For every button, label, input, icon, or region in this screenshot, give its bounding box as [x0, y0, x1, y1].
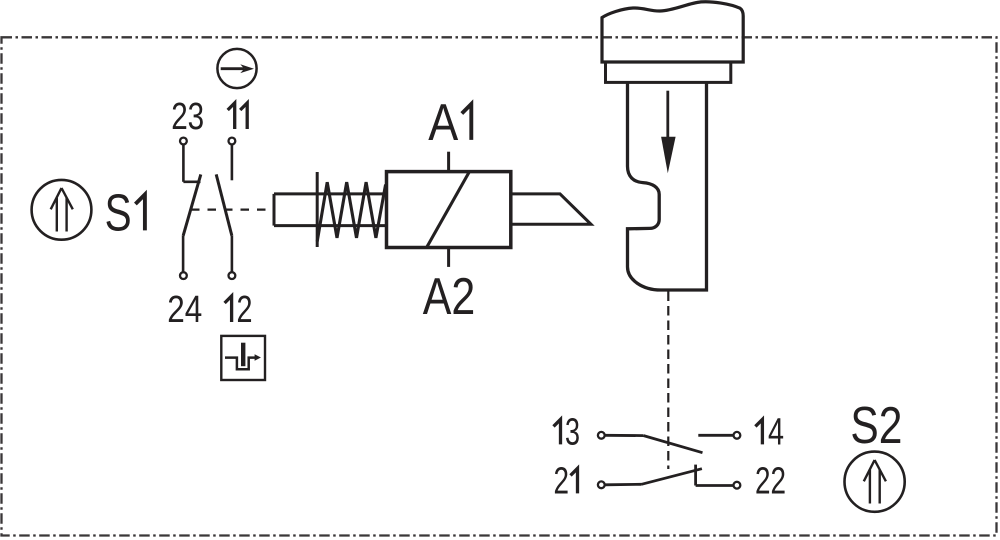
- actuator head block (wavy top): [602, 2, 743, 62]
- solenoid-monitoring icon (square with pulse): [221, 336, 265, 380]
- insertion arrow in shaft: [666, 91, 669, 138]
- spring abutment bar: [316, 172, 319, 247]
- solenoid coil U1 (box with diagonal): [387, 172, 511, 248]
- solenoid diagonal: [427, 172, 470, 248]
- svg-text:S: S: [105, 184, 132, 242]
- svg-text:3: 3: [565, 411, 580, 453]
- svg-text:22: 22: [755, 460, 786, 502]
- terminal lead A2: [447, 248, 450, 267]
- actuation-direction icon (circle with right arrow): [217, 49, 256, 88]
- svg-text:S2: S2: [850, 397, 902, 455]
- svg-text:23: 23: [171, 96, 204, 138]
- plunger rod: [274, 194, 387, 226]
- contact 11-12 (NC contact of S1): [216, 138, 235, 279]
- contact 13-14 (NO contact of S2): [598, 432, 740, 453]
- svg-text:2: 2: [237, 289, 253, 331]
- label 13: [554, 419, 561, 444]
- svg-text:2: 2: [553, 460, 569, 502]
- label 11: [228, 103, 248, 129]
- S2 symbol circle with up arrow: [845, 452, 905, 512]
- contact 23-24 (NO contact of S1): [180, 138, 201, 279]
- mechanical linkage (dashed) from contacts to plunger: [191, 209, 274, 211]
- terminal lead A1: [447, 152, 450, 172]
- spring: [317, 182, 385, 241]
- label 12: [225, 296, 232, 322]
- locking bolt (wedge): [511, 194, 591, 224]
- svg-text:A2: A2: [423, 268, 476, 326]
- svg-text:A: A: [428, 94, 458, 152]
- label 14: [755, 419, 762, 444]
- contact 21-22 (NC contact of S2): [598, 465, 740, 489]
- S1 symbol circle with up arrow: [32, 180, 92, 240]
- actuator shaft with latch notch: [628, 82, 707, 290]
- svg-text:4: 4: [768, 411, 784, 453]
- mechanical linkage (dashed) actuator to S2 contacts: [667, 292, 669, 470]
- actuator collar: [606, 62, 731, 82]
- svg-text:24: 24: [167, 289, 202, 331]
